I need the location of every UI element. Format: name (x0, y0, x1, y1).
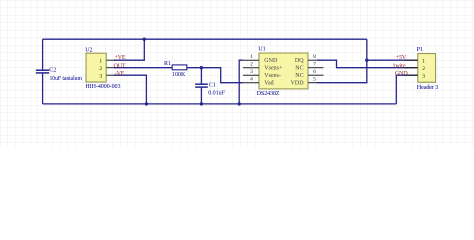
svg-text:4: 4 (250, 77, 253, 83)
svg-text:GND: GND (395, 70, 408, 77)
junction GND bus / -VE (145, 102, 148, 105)
junction +5V / VDD riser (365, 59, 368, 62)
svg-text:6: 6 (313, 69, 316, 75)
component U1 DS2438Z body (259, 53, 308, 89)
U2 pin numbers (99, 58, 102, 79)
svg-text:Header 3: Header 3 (417, 84, 438, 91)
svg-text:C1: C1 (209, 82, 216, 88)
svg-text:Vad: Vad (264, 81, 273, 87)
P1 pin leads (404, 60, 418, 75)
svg-text:3: 3 (99, 73, 102, 79)
resistor R1 body (172, 65, 187, 70)
svg-text:5: 5 (313, 77, 316, 83)
P1 pin numbers (422, 58, 425, 79)
svg-text:DS2438Z: DS2438Z (257, 91, 280, 97)
svg-text:3: 3 (250, 69, 253, 75)
svg-text:2: 2 (250, 62, 253, 68)
svg-text:0.01uF: 0.01uF (208, 91, 225, 97)
svg-text:3: 3 (422, 73, 425, 79)
U1 left pin leads (243, 60, 259, 82)
component U2 HIH-4000-003 body (86, 53, 106, 82)
wire C1 top lead (200, 68, 202, 84)
wire +VE net U2 pin1 to top bus (114, 39, 144, 60)
svg-text:HIH-4000-003: HIH-4000-003 (85, 84, 120, 90)
wire left vertical lower segment (C2 bottom plate to GND bus) (42, 73, 44, 104)
capacitor C1 plates (195, 84, 208, 87)
wire +5V junction to P1 pin1 (367, 59, 418, 61)
svg-text:1: 1 (250, 54, 253, 60)
svg-text:P1: P1 (417, 47, 423, 53)
wire left vertical upper segment (to C2 top plate) (42, 39, 44, 70)
wire U1 GND pin1 to GND bus (239, 60, 243, 104)
svg-text:1wire: 1wire (393, 62, 406, 69)
wire bottom GND bus (43, 103, 397, 105)
svg-text:8: 8 (313, 54, 316, 60)
svg-text:DQ: DQ (295, 58, 304, 64)
svg-text:1: 1 (99, 58, 102, 64)
wire top +5V bus (43, 38, 367, 40)
svg-text:GND: GND (264, 58, 278, 64)
component P1 Header 3 body (418, 54, 436, 83)
svg-text:NC: NC (295, 66, 303, 72)
wire C1 bottom lead (200, 88, 202, 104)
svg-text:100K: 100K (172, 72, 186, 78)
svg-text:1: 1 (422, 58, 425, 64)
svg-text:U1: U1 (258, 47, 265, 53)
junction GND bus / C1 (200, 102, 203, 105)
svg-text:Vsens-: Vsens- (264, 73, 281, 79)
U1 right pin leads (308, 60, 324, 82)
U2 pin leads (106, 60, 115, 75)
svg-text:2: 2 (99, 66, 102, 72)
svg-text:+5V: +5V (396, 54, 407, 61)
svg-text:C2: C2 (49, 67, 56, 73)
svg-text:VDD: VDD (291, 81, 305, 87)
svg-text:7: 7 (313, 62, 316, 68)
wire OUT net U2 pin2 to R1 (114, 67, 172, 69)
wire VDD U1 pin5 riser up to +5V junction (317, 60, 367, 82)
svg-text:U2: U2 (85, 48, 92, 54)
svg-text:R1: R1 (164, 61, 171, 67)
U1 left pin numbers (250, 54, 253, 83)
wire -VE net U2 pin3 down to GND bus (114, 75, 146, 104)
svg-text:+VE: +VE (114, 54, 125, 61)
svg-text:NC: NC (295, 73, 303, 79)
U1 pin names left (264, 58, 283, 86)
svg-text:-VE: -VE (115, 70, 125, 77)
wire DQ net U1 pin8 step down to 1wire row into P1 pin2 (317, 60, 418, 67)
U1 pin names right (291, 58, 305, 86)
junction top bus / +VE riser (143, 38, 146, 41)
U1 right pin numbers (313, 54, 316, 83)
junction GND bus / U1 GND (238, 102, 241, 105)
sheet grid background (0, 0, 474, 147)
capacitor C2 plates (36, 70, 49, 73)
svg-text:2: 2 (422, 66, 425, 72)
junction R1 / C1 (200, 66, 203, 69)
wire R1 to C1 junction then down to U1 Vad pin4 (187, 68, 243, 83)
svg-text:OUT: OUT (114, 62, 126, 69)
svg-text:10uF tantalum: 10uF tantalum (50, 76, 83, 82)
wire GND bus riser up to P1 pin3 (396, 75, 418, 104)
wire top bus riser down to +5V junction at P1 column (366, 39, 368, 60)
svg-text:Vsens+: Vsens+ (264, 66, 283, 72)
